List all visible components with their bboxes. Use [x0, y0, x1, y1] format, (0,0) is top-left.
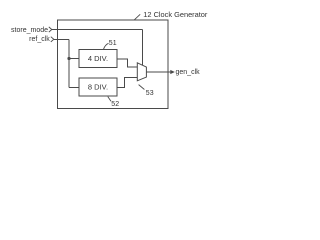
wire store_mode horizontal — [52, 29, 143, 31]
wire ref_clk vertical branch — [68, 39, 70, 87]
divider block 4 DIV — [79, 50, 117, 68]
svg-text:gen_clk: gen_clk — [176, 69, 201, 76]
junction node — [67, 57, 70, 60]
wire gen_clk output — [146, 71, 170, 73]
svg-text:51: 51 — [109, 40, 117, 47]
port chevron ref_clk — [51, 37, 54, 42]
svg-text:53: 53 — [146, 90, 154, 97]
svg-text:12 Clock Generator: 12 Clock Generator — [143, 10, 208, 19]
outer box: clock generator block — [58, 20, 169, 109]
wire 8 DIV output to mux — [117, 77, 137, 87]
leader to outer box — [134, 14, 140, 20]
svg-text:8 DIV.: 8 DIV. — [88, 83, 108, 92]
port chevron store_mode — [49, 27, 52, 32]
wire to 8 DIV input — [69, 87, 79, 89]
svg-text:52: 52 — [111, 101, 119, 108]
leader 53 — [139, 85, 145, 90]
svg-text:4 DIV.: 4 DIV. — [88, 54, 108, 63]
leader 52 — [108, 97, 111, 102]
divider block 8 DIV — [79, 78, 117, 96]
multiplexer 53 — [137, 63, 146, 81]
wire 4 DIV output to mux — [117, 59, 137, 67]
wire select vertical to mux — [142, 30, 144, 66]
arrowhead gen_clk — [170, 70, 175, 74]
leader 51 — [104, 43, 109, 49]
svg-text:store_mode: store_mode — [11, 27, 48, 34]
wire ref_clk horizontal — [54, 38, 69, 40]
wire to 4 DIV input — [69, 58, 79, 60]
svg-text:ref_clk: ref_clk — [29, 36, 50, 43]
